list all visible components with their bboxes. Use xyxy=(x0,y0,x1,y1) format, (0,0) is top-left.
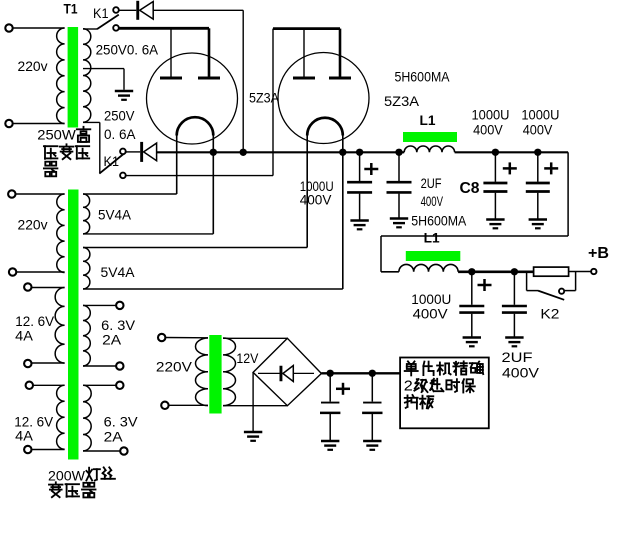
wire 6.3V second top tap xyxy=(83,384,117,386)
wire 12.6V first bottom lead xyxy=(31,362,65,364)
polarity + cap C xyxy=(503,167,517,170)
wire across to second stage xyxy=(381,235,568,237)
wire K2 up to +B wire xyxy=(575,272,577,291)
svg-text:250W: 250W xyxy=(37,127,76,143)
junction dot rail cap C xyxy=(492,149,499,156)
wire 6.3V first bottom tap xyxy=(83,365,117,367)
junction dot V1 cathode on rail xyxy=(210,149,217,156)
wire rail right corner down xyxy=(567,152,569,236)
T3 secondary winding 12V xyxy=(223,338,236,406)
T1 primary winding 220v xyxy=(57,28,65,124)
svg-text:200W: 200W xyxy=(48,468,86,484)
choke L2 core bar xyxy=(406,251,461,261)
junction dot cap G xyxy=(327,370,334,377)
wire vertical to cathode rail xyxy=(242,10,244,152)
capacitor CD 1000U 400V xyxy=(537,152,539,182)
svg-text:2A: 2A xyxy=(104,429,124,445)
V2 anode plate left xyxy=(293,77,315,80)
svg-text:0. 6A: 0. 6A xyxy=(104,126,136,142)
protection board box xyxy=(400,358,489,429)
svg-text:K2: K2 xyxy=(540,306,559,322)
bridge rectifier diamond xyxy=(253,338,321,405)
wire T1 secondary top tap to K1 xyxy=(83,28,97,30)
wire T2 primary top lead xyxy=(15,193,65,195)
capacitor CE 1000U 400V xyxy=(471,272,473,305)
junction dot rail cap B xyxy=(395,149,402,156)
diode D1 xyxy=(136,1,139,20)
ground cap B xyxy=(390,217,408,220)
T2 secondary 5V4A second winding xyxy=(83,248,90,289)
ground center tap xyxy=(115,90,133,93)
capacitor CG xyxy=(329,373,331,401)
terminal +B xyxy=(591,269,596,274)
junction dot cap E xyxy=(468,268,475,275)
svg-text:4A: 4A xyxy=(15,328,33,344)
T2 12.6V second winding xyxy=(57,385,65,449)
T3 primary terminal top xyxy=(158,334,165,341)
label chars 灯丝 xyxy=(88,468,90,475)
T2 12.6V first winding xyxy=(55,288,64,364)
ground cap D xyxy=(529,218,547,221)
svg-text:2A: 2A xyxy=(102,332,122,348)
T2 secondary 5V4A first winding xyxy=(83,194,90,234)
V1 anode lead left xyxy=(170,28,172,77)
T2 6.3V second terminal top xyxy=(116,382,123,389)
ground cap F xyxy=(505,336,523,339)
wire 5V second bottom tap to V2 filament xyxy=(83,288,343,290)
svg-text:12V: 12V xyxy=(236,350,259,366)
choke L1 winding xyxy=(404,146,454,152)
wire T3 primary bottom lead xyxy=(168,404,208,406)
switch K2 blade xyxy=(538,291,564,300)
resistor R1 xyxy=(534,267,569,276)
wire 6.3V second bottom tap xyxy=(83,450,121,452)
svg-text:+B: +B xyxy=(588,245,609,262)
svg-text:220v: 220v xyxy=(18,58,48,74)
wire cathode rail B+ xyxy=(157,151,405,153)
wire K1 bottom contact B to tube V2 anode feed xyxy=(126,175,273,177)
V1 anode lead right xyxy=(208,28,211,77)
T2 primary terminal bottom xyxy=(9,268,16,275)
T1 primary terminal top xyxy=(5,24,12,31)
svg-text:5H600MA: 5H600MA xyxy=(395,69,451,85)
wire down to choke L2 xyxy=(380,236,382,272)
junction dot xyxy=(240,149,247,156)
polarity + cap G xyxy=(336,388,350,391)
wire bridge output to protection board xyxy=(321,372,400,374)
label chars 护板 xyxy=(405,397,410,399)
svg-text:1000U: 1000U xyxy=(521,107,559,123)
label chars 单片机精确 xyxy=(408,361,410,363)
svg-text:K1: K1 xyxy=(104,153,120,169)
wire K2 branch horizontal xyxy=(527,290,538,292)
wire 5V first bottom tap to V1 filament xyxy=(83,233,213,235)
wire T3 primary top lead xyxy=(165,337,208,339)
svg-text:6. 3V: 6. 3V xyxy=(104,414,139,430)
svg-text:1000U: 1000U xyxy=(472,107,510,123)
svg-text:5V4A: 5V4A xyxy=(101,264,136,280)
diode D2 xyxy=(140,142,143,162)
wire center tap down to ground xyxy=(123,69,125,90)
T1 primary terminal bottom xyxy=(5,120,12,127)
switch K1 bottom contact A xyxy=(120,149,126,155)
svg-text:400V: 400V xyxy=(473,122,503,138)
svg-text:2: 2 xyxy=(404,378,413,395)
T2 6.3V first terminal bottom xyxy=(116,362,123,369)
switch K1 bottom blade xyxy=(99,152,126,174)
wire 12.6V second top lead xyxy=(33,384,65,386)
ground cap C xyxy=(486,218,504,221)
svg-text:400V: 400V xyxy=(523,122,553,138)
label chars 变压器 xyxy=(55,482,57,484)
svg-text:K1: K1 xyxy=(93,5,109,21)
T2 12.6V second terminal top xyxy=(26,382,33,389)
wire B+ out of choke L2 xyxy=(458,270,533,273)
wire T1 center tap xyxy=(83,68,124,70)
svg-text:4A: 4A xyxy=(15,428,33,444)
switch K2 contact xyxy=(559,289,564,294)
polarity + cap E xyxy=(478,284,492,287)
switch K1 top contact A xyxy=(113,7,119,13)
wire bridge left vertex to ground xyxy=(252,372,254,431)
switch K1 top blade xyxy=(97,15,119,30)
wire 12V bottom tap to bridge xyxy=(223,405,287,407)
ground cap H xyxy=(363,440,381,443)
svg-text:2UF: 2UF xyxy=(502,349,533,365)
bridge internal diode xyxy=(280,366,283,382)
junction dot cap H xyxy=(369,370,376,377)
junction dot cap F xyxy=(511,268,518,275)
label chars 级延时保 xyxy=(417,378,419,380)
junction dot rail cap D xyxy=(534,149,541,156)
T2 core xyxy=(68,190,79,460)
T2 6.3V first winding xyxy=(83,305,90,366)
rectifier tube V2 envelope xyxy=(278,53,369,144)
polarity + cap A xyxy=(364,168,378,171)
bridge internal diode wire xyxy=(258,372,314,374)
ground bridge xyxy=(244,431,262,434)
svg-text:5Z3A: 5Z3A xyxy=(249,90,280,106)
choke L2 winding xyxy=(399,264,458,271)
wire K2 branch down xyxy=(526,272,528,291)
T2 6.3V second terminal bottom xyxy=(120,447,127,454)
T3 primary terminal bottom xyxy=(161,402,168,409)
svg-text:L1: L1 xyxy=(420,112,436,128)
svg-text:400V: 400V xyxy=(421,193,444,209)
wire T1 primary bottom lead xyxy=(12,123,64,125)
wire K1 contact A to diode D1 xyxy=(119,9,136,11)
wire 12.6V first top lead xyxy=(31,287,65,289)
capacitor CC 1000U 400V xyxy=(494,152,496,182)
wire V2 anode top xyxy=(273,27,340,30)
junction dot V2 cathode on rail xyxy=(339,149,346,156)
label char 器 xyxy=(45,162,50,166)
wire 12V top tap to bridge xyxy=(223,337,287,339)
wire rail after L1 xyxy=(455,151,568,153)
junction dot rail cap A xyxy=(356,149,363,156)
T1 core xyxy=(68,27,79,128)
T2 6.3V first terminal top xyxy=(116,302,123,309)
svg-text:250V: 250V xyxy=(104,108,135,124)
wire T1 primary top lead xyxy=(12,27,64,29)
capacitor CF 2UF 400V xyxy=(513,272,515,305)
label char 高 xyxy=(77,128,91,130)
wire 6.3V first top tap xyxy=(83,304,117,306)
svg-text:T1: T1 xyxy=(64,1,78,17)
svg-text:L1: L1 xyxy=(424,230,440,246)
wire T1 bottom tap xyxy=(83,121,100,123)
V1 anode plate right xyxy=(198,77,220,80)
svg-text:C8: C8 xyxy=(460,180,480,197)
T2 primary terminal top xyxy=(8,190,15,197)
ground cap E xyxy=(463,336,481,339)
wire 5V first top tap to V1 filament xyxy=(83,193,177,195)
wire 12.6V second bottom lead xyxy=(31,449,65,451)
svg-text:250V0. 6A: 250V0. 6A xyxy=(96,42,159,58)
T2 12.6V second terminal bottom xyxy=(24,446,31,453)
label chars 压变压 xyxy=(44,145,58,147)
V2 anode lead left xyxy=(303,29,305,77)
V2 filament leg right xyxy=(342,136,344,290)
svg-text:5V4A: 5V4A xyxy=(98,207,132,223)
wire T2 primary bottom lead xyxy=(16,271,65,273)
svg-text:220V: 220V xyxy=(156,359,193,375)
wire bottom tap down to K1 xyxy=(99,122,101,173)
V2 filament leg left xyxy=(306,136,308,248)
switch K1 top contact B xyxy=(113,25,119,31)
ground cap A xyxy=(350,219,368,222)
wire K1 contact B to tube V1 anodes xyxy=(119,27,209,30)
svg-text:400V: 400V xyxy=(300,192,332,208)
capacitor CH xyxy=(371,373,373,401)
V2 filament dome xyxy=(307,118,343,136)
T2 12.6V first terminal top xyxy=(24,283,31,290)
V2 anode plate right xyxy=(329,77,351,80)
T1 secondary winding xyxy=(83,29,91,123)
wire resistor to +B terminal xyxy=(569,271,591,273)
capacitor CB 2UF 400V xyxy=(398,152,400,181)
svg-text:400V: 400V xyxy=(502,365,540,381)
polarity + cap D xyxy=(544,167,558,170)
T2 12.6V first terminal bottom xyxy=(24,360,31,367)
T3 primary winding 220V xyxy=(196,338,209,406)
wire V2 anode feed vertical xyxy=(272,29,274,176)
svg-text:2UF: 2UF xyxy=(421,175,442,191)
wire into choke L2 xyxy=(381,271,399,273)
V1 filament leg right xyxy=(212,136,214,234)
T2 primary winding 220v xyxy=(57,194,65,273)
svg-text:220v: 220v xyxy=(18,217,48,233)
ground cap G xyxy=(321,440,339,443)
wire D1 to node line xyxy=(153,9,243,11)
rectifier tube V1 envelope xyxy=(147,53,238,144)
T3 core xyxy=(209,335,221,414)
svg-text:5Z3A: 5Z3A xyxy=(384,93,420,109)
wire K1 bottom contact A to diode D2 xyxy=(126,151,140,153)
wire 5V second top tap to V2 filament xyxy=(83,247,307,249)
svg-text:5H600MA: 5H600MA xyxy=(411,213,467,229)
V1 anode plate left xyxy=(160,77,182,80)
choke L1 core bar xyxy=(403,132,457,142)
V1 filament leg left xyxy=(176,136,178,195)
T2 6.3V second winding xyxy=(83,385,91,451)
wire K2 contact to right xyxy=(564,290,575,292)
svg-text:400V: 400V xyxy=(413,306,449,322)
capacitor CA 1000U 400V xyxy=(359,152,361,181)
V2 anode lead right xyxy=(339,29,342,77)
V1 filament dome xyxy=(177,117,214,135)
switch K1 bottom contact B xyxy=(120,173,126,179)
